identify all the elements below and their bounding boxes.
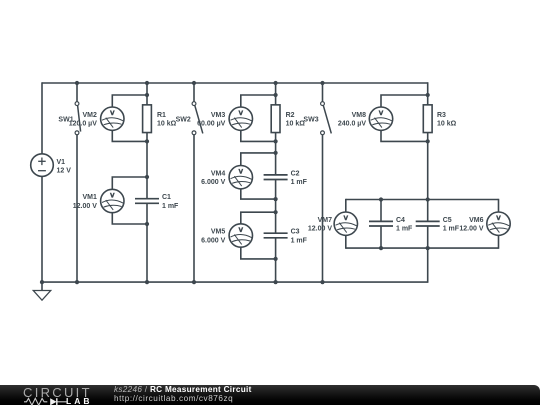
svg-text:10 kΩ: 10 kΩ <box>157 121 177 128</box>
node junction dots top rail <box>75 81 325 85</box>
capacitor C2 <box>264 175 288 180</box>
wire VM3 bottom connector <box>241 130 276 141</box>
svg-text:12 V: 12 V <box>57 168 72 175</box>
label R2 <box>286 112 306 128</box>
svg-text:C2: C2 <box>291 170 300 177</box>
CircuitLab logo CIRCUIT text <box>23 386 92 399</box>
svg-text:R2: R2 <box>286 112 295 119</box>
label C3 <box>291 229 308 245</box>
svg-text:VM4: VM4 <box>211 170 226 177</box>
CircuitLab logo LAB text <box>66 397 92 406</box>
wire box bottom rail <box>346 247 499 249</box>
svg-text:VM5: VM5 <box>211 229 226 236</box>
switch SW1 <box>75 102 81 135</box>
wire top rail <box>42 82 428 84</box>
voltmeter VM8 <box>369 107 392 130</box>
svg-text:R1: R1 <box>157 112 166 119</box>
wire box top rail <box>346 199 499 201</box>
wire VM5 bottom connector <box>241 247 276 259</box>
svg-text:12.00 V: 12.00 V <box>73 203 97 210</box>
label SW1 <box>58 116 73 123</box>
svg-text:240.0 µV: 240.0 µV <box>338 121 366 128</box>
voltage source V1 <box>31 154 54 177</box>
resistor R2 <box>271 105 280 133</box>
svg-text:VM6: VM6 <box>469 217 484 224</box>
label VM6 <box>459 217 483 233</box>
label VM8 <box>338 112 366 128</box>
wire VM8 top connector <box>381 95 428 107</box>
label VM7 <box>308 217 332 233</box>
wire VM6 bottom lead <box>498 235 500 248</box>
wire SW1 upper stub <box>76 83 78 102</box>
wire VM4 top connector <box>241 153 276 166</box>
svg-text:C1: C1 <box>162 194 171 201</box>
svg-text:60.00 µV: 60.00 µV <box>197 121 225 128</box>
svg-text:6.000 V: 6.000 V <box>201 237 225 244</box>
label VM1 <box>73 194 97 210</box>
resistor R3 <box>423 105 432 133</box>
voltmeter VM6 <box>487 212 510 235</box>
svg-text:VM2: VM2 <box>82 112 97 119</box>
svg-text:10 kΩ: 10 kΩ <box>286 121 306 128</box>
label SW2 <box>176 116 191 123</box>
wire SW1 lower <box>76 135 78 283</box>
node dots R1/C1 column <box>145 93 149 226</box>
svg-text:12.00 V: 12.00 V <box>459 226 483 233</box>
svg-text:C5: C5 <box>443 217 452 224</box>
wire VM4 bottom connector <box>241 189 276 199</box>
wire left rail lower <box>41 176 43 282</box>
switch SW3 <box>321 102 332 135</box>
wire VM7 bottom lead <box>345 235 347 248</box>
wire VM1 bottom connector <box>112 213 147 224</box>
label SW3 <box>303 116 318 123</box>
label C1 <box>162 194 179 210</box>
voltmeter VM7 <box>334 212 357 235</box>
capacitor C4 <box>369 221 393 226</box>
resistor R1 <box>143 105 152 133</box>
svg-text:6.000 V: 6.000 V <box>201 179 225 186</box>
label C4 <box>396 217 413 233</box>
svg-text:120.0 µV: 120.0 µV <box>69 121 97 128</box>
node dots C4 column <box>379 197 383 250</box>
wire C4 lower lead <box>380 226 382 248</box>
label R1 <box>157 112 177 128</box>
wire VM1 top connector <box>112 177 147 189</box>
wire VM2 top connector <box>112 95 147 107</box>
wire VM7 top lead <box>345 199 347 212</box>
wire R3 rail lower <box>427 226 429 283</box>
wire SW3 upper stub <box>322 83 324 102</box>
voltmeter VM1 <box>101 189 124 212</box>
label VM2 <box>69 112 97 128</box>
voltmeter VM5 <box>229 224 252 247</box>
wire VM8 bottom connector <box>381 130 428 141</box>
svg-text:VM8: VM8 <box>352 112 367 119</box>
logo resistor zigzag and diode <box>24 397 68 407</box>
wire R3 rail <box>427 82 429 221</box>
wire R2 rail lower <box>275 238 277 282</box>
wire R1 rail <box>146 83 148 199</box>
wire VM2 bottom connector <box>112 130 147 141</box>
footer title text <box>114 385 252 403</box>
label C2 <box>291 170 308 186</box>
svg-text:SW2: SW2 <box>176 116 191 123</box>
label R3 <box>437 112 457 128</box>
node dots R3/C5 column <box>426 93 430 250</box>
svg-text:VM7: VM7 <box>318 217 333 224</box>
wire left rail upper <box>41 82 43 154</box>
wire VM6 top lead <box>498 199 500 212</box>
voltmeter VM2 <box>101 107 124 130</box>
svg-text:C3: C3 <box>291 229 300 236</box>
svg-text:1 mF: 1 mF <box>291 179 308 186</box>
wire VM5 top connector <box>241 212 276 224</box>
wire bottom rail <box>42 281 428 283</box>
svg-text:VM3: VM3 <box>211 112 226 119</box>
svg-text:1 mF: 1 mF <box>162 203 179 210</box>
wire SW2 lower <box>193 135 195 283</box>
voltmeter VM3 <box>229 107 252 130</box>
wire SW3 lower <box>322 135 324 283</box>
ground <box>33 282 50 300</box>
wire VM3 top connector <box>241 95 276 107</box>
svg-text:SW3: SW3 <box>303 116 318 123</box>
wire C4 upper lead <box>380 200 382 222</box>
label VM4 <box>201 170 225 186</box>
label VM3 <box>197 112 225 128</box>
capacitor C5 <box>416 221 440 226</box>
label V1 value <box>57 159 72 175</box>
svg-text:10 kΩ: 10 kΩ <box>437 121 457 128</box>
wire SW2 upper stub <box>193 83 195 102</box>
capacitor C3 <box>264 233 288 238</box>
svg-text:V1: V1 <box>57 159 66 166</box>
svg-text:1 mF: 1 mF <box>443 226 460 233</box>
label VM5 <box>201 229 225 245</box>
svg-text:R3: R3 <box>437 112 446 119</box>
label C5 <box>443 217 460 233</box>
wire R1 rail below C1 <box>146 203 148 282</box>
node dots R2/C2/C3 column <box>274 93 278 261</box>
capacitor C1 <box>135 199 159 204</box>
voltmeter VM4 <box>229 166 252 189</box>
switch SW2 <box>192 102 203 135</box>
svg-text:VM1: VM1 <box>82 194 97 201</box>
svg-text:1 mF: 1 mF <box>291 237 308 244</box>
svg-text:C4: C4 <box>396 217 405 224</box>
wire R2 rail mid <box>275 180 277 234</box>
wire R2 rail <box>275 83 277 175</box>
svg-text:12.00 V: 12.00 V <box>308 226 332 233</box>
node junction dots bottom rail <box>40 280 325 284</box>
svg-text:1 mF: 1 mF <box>396 226 413 233</box>
